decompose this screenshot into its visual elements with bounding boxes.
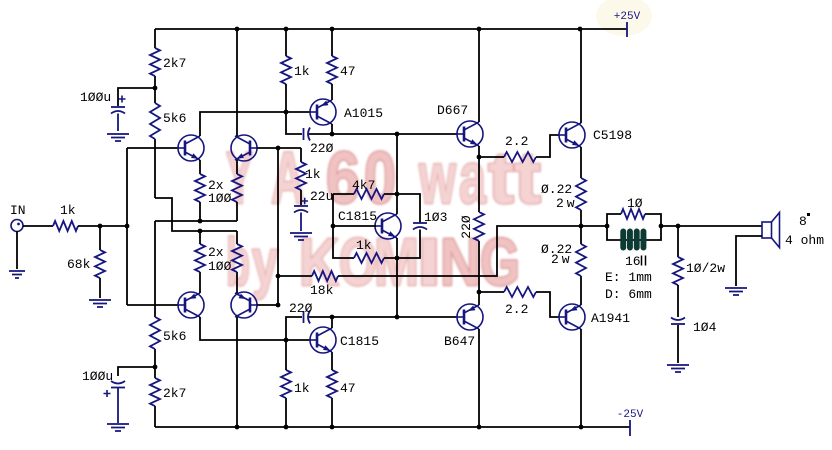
svg-text:1k: 1k [294, 64, 310, 79]
junction box bottom [395, 256, 400, 261]
wire 100u to ground [117, 114, 119, 132]
svg-text:22Ø: 22Ø [289, 301, 313, 316]
wire Q3 collector to lower VAS node [200, 317, 311, 340]
wire left chain top [154, 29, 156, 427]
wire C1815 collector [331, 317, 333, 328]
wire 1k bottom lead [285, 398, 287, 427]
ground below 100u top [107, 134, 129, 141]
svg-text:B647: B647 [444, 334, 475, 349]
resistor R 1k input [53, 221, 78, 231]
wire C1815 bias emitter [396, 238, 398, 258]
wire B647 emitter [478, 292, 480, 305]
wire 1k to C1815 base node [285, 340, 287, 370]
wire Q4 emitter [236, 272, 238, 293]
junction upper-left 100ohm bottom [198, 219, 203, 224]
junction RL left [605, 224, 610, 229]
svg-text:1Ø3: 1Ø3 [424, 210, 447, 225]
junction C1815 base node [284, 338, 289, 343]
wire bias box left+top+bottom+right [333, 134, 420, 317]
svg-text:Ø.22: Ø.22 [541, 182, 572, 197]
junction zobel tap [676, 224, 681, 229]
transistor Q B647 pnp [457, 304, 483, 330]
power terminal -25V tick [629, 420, 631, 436]
resistor R 47 bottom [327, 370, 337, 398]
wire -25V bottom rail [155, 426, 630, 428]
junction 2k7/5k6 with 100u [153, 86, 158, 91]
wire 100LR to common [236, 231, 238, 244]
wire input bases vertical [126, 148, 128, 305]
svg-text:1ØØu: 1ØØu [82, 369, 113, 384]
svg-text:C1815: C1815 [338, 209, 377, 224]
wire D667 emitter [478, 146, 480, 157]
junction 18k at feedback node [276, 274, 281, 279]
svg-text:1Ø4: 1Ø4 [693, 320, 717, 335]
transistor Q1 npn [178, 135, 204, 161]
resistor R 5k6 top [150, 103, 160, 139]
junction Q4 collector rail [235, 425, 240, 430]
wire A1941 emitter [580, 276, 582, 305]
svg-text:4k7: 4k7 [352, 178, 375, 193]
wire 47 to A1015 emitter [331, 84, 333, 100]
resistor R 5k6 bottom [150, 317, 160, 349]
svg-text:G: G [480, 225, 520, 300]
transistor Q A1941 pnp [559, 304, 585, 330]
svg-text:2x: 2x [208, 245, 224, 260]
wire 104 to ground [677, 325, 679, 363]
svg-text:t: t [488, 138, 514, 219]
svg-text:2.2: 2.2 [505, 302, 528, 317]
wire 22u to ground [300, 213, 302, 232]
transistor U A1015 pnp [310, 99, 336, 125]
junction 5k6/2k7 bottom with 100u [153, 365, 158, 370]
resistor R 47 top [327, 56, 337, 84]
junction bias top [395, 132, 400, 137]
svg-text:a: a [459, 138, 487, 219]
wire 47 top lead [331, 29, 333, 56]
wire 1k to input node [78, 225, 127, 227]
svg-text:y: y [252, 225, 278, 300]
wire C1815 bias base [333, 225, 376, 227]
wire Q1 emitter [199, 160, 201, 174]
wire Q2 base [257, 147, 301, 149]
wire upper pair common node [155, 220, 237, 222]
svg-text:22u: 22u [310, 189, 333, 204]
capacitor C 100u top [111, 106, 125, 108]
junction Q2 collector rail [235, 27, 240, 32]
svg-text:2k7: 2k7 [163, 386, 186, 401]
svg-text:1Ø/2w: 1Ø/2w [686, 261, 725, 276]
junction feedback node bottom [276, 303, 281, 308]
resistor R 10 damping [621, 209, 645, 219]
svg-text:5k6: 5k6 [163, 111, 186, 126]
svg-text:47: 47 [340, 64, 356, 79]
junction input node [125, 224, 130, 229]
junction 1k top rail [284, 27, 289, 32]
ground below IN jack [16, 231, 18, 269]
wire 1k to A1015 base node [285, 84, 287, 112]
svg-text:22Ø: 22Ø [310, 141, 334, 156]
resistor R 1k bias [354, 253, 384, 263]
junction 47 top rail [330, 27, 335, 32]
wire speaker return [736, 236, 762, 286]
transistor U C1815 vas npn [310, 327, 336, 353]
svg-text:-25V: -25V [617, 409, 644, 421]
wire Q2 emitter [236, 160, 238, 174]
connector IN jack [11, 220, 23, 232]
transistor Q D667 npn [457, 121, 483, 147]
svg-text:1k: 1k [356, 238, 372, 253]
wire C1815 bias collector [396, 194, 398, 214]
wire output run to speaker [661, 225, 762, 227]
junction C1815 collector node [330, 315, 335, 320]
junction bias bottom [395, 315, 400, 320]
svg-text:68k: 68k [67, 257, 91, 272]
svg-text:1Ø: 1Ø [627, 196, 643, 211]
wire 68k to ground [99, 278, 101, 298]
junction feedback node top [276, 146, 281, 151]
wire VAS top to D667 base [332, 133, 457, 135]
capacitor C 103 [413, 222, 427, 224]
svg-text:D: 6mm: D: 6mm [605, 287, 652, 302]
svg-text:1k: 1k [294, 381, 310, 396]
resistor R 0.22 top [576, 178, 586, 210]
wire 0.22 bottom to output [580, 226, 582, 244]
wire zobel mid [677, 285, 679, 317]
svg-text:4 ohm: 4 ohm [785, 233, 824, 248]
svg-text:C5198: C5198 [593, 128, 632, 143]
wire 68k top lead [99, 226, 101, 250]
wire 1k fb top lead [300, 148, 302, 162]
wire B647 collector to -rail [478, 329, 480, 427]
wire feedback vertical [277, 148, 279, 305]
resistor R 68k [95, 250, 105, 278]
wire 18k left lead [278, 275, 312, 277]
resistor R 1k VAS top [281, 56, 291, 84]
ground below 104 [667, 365, 689, 372]
capacitor C 220 comp bottom [303, 311, 305, 323]
wire A1941 collector to -rail [580, 329, 582, 427]
wire Q4 base [257, 304, 278, 306]
wire 220 driver leads [478, 157, 480, 292]
junction C5198 rail [578, 27, 583, 32]
wire D667 collector to +rail [478, 29, 480, 122]
resistor R 2k7 bottom [150, 378, 160, 406]
junction box top [395, 192, 400, 197]
svg-text:1ØØu: 1ØØu [80, 90, 111, 105]
svg-text:2w: 2w [551, 252, 573, 267]
junction 68k tap [98, 224, 103, 229]
svg-text:t: t [514, 138, 541, 219]
wire A1015 collector [331, 124, 333, 134]
wire VAS bottom to B647 base [332, 316, 457, 318]
svg-text:2w: 2w [556, 196, 578, 211]
resistor R 100 upper-right [232, 174, 242, 202]
resistor R 100 upper-left [195, 174, 205, 202]
junction A1015 base node [284, 110, 289, 115]
wire 100LL to common [199, 231, 201, 244]
junction output node [579, 224, 584, 229]
svg-text:w: w [418, 138, 456, 219]
inductor L1 coil [620, 229, 626, 251]
svg-text:D667: D667 [437, 103, 468, 118]
capacitor C 100u bottom [111, 381, 125, 384]
wire C5198 emitter [580, 147, 582, 178]
svg-text:1k: 1k [305, 167, 321, 182]
junction 1k bottom rail [284, 425, 289, 430]
resistor R 0.22 bottom [576, 244, 586, 276]
resistor R 10/2w zobel [673, 257, 683, 285]
svg-text:C1815: C1815 [340, 334, 379, 349]
wire base Q1 [127, 147, 178, 149]
wire 100u bottom to ground [117, 388, 119, 423]
resistor R 2.2 top [504, 152, 536, 162]
junction 47 bottom rail [330, 425, 335, 430]
junction C1815 base box [331, 224, 336, 229]
junction B647 emitter node [477, 290, 482, 295]
wire 0.22 top to output [580, 210, 582, 226]
wire C5198 collector to +rail [580, 29, 582, 123]
wire 2.2 top run [479, 135, 559, 157]
wire 47 bottom lead [331, 398, 333, 427]
ground below 68k [89, 300, 111, 307]
wire 1k fb to 22u [300, 190, 302, 205]
junction A1015 collector node [330, 132, 335, 137]
wire 18k to output [338, 226, 579, 276]
wire tail jog upper (to lower pair common) [155, 198, 237, 231]
junction B647 rail [477, 425, 482, 430]
wire to 100u bottom [118, 367, 155, 376]
wire 2.2 bottom run [479, 292, 559, 317]
transistor Q4 pnp mirrored [231, 292, 257, 318]
transistor U C1815 bias npn [375, 213, 401, 239]
resistor R 2k7 top [150, 48, 160, 76]
resistor R 1k VAS bottom [281, 370, 291, 398]
wire to 100u top [118, 88, 155, 106]
wire jack to 1k [23, 225, 53, 227]
svg-text:2k7: 2k7 [163, 56, 186, 71]
wire output to RL [581, 225, 607, 227]
resistor R 1k feedback [296, 162, 306, 190]
svg-text:16: 16 [625, 254, 641, 269]
resistor R 100 lower-right [232, 244, 242, 272]
power terminal +25V tick [626, 22, 628, 37]
ground below 100u bottom [107, 424, 129, 431]
wire Q4 collector to -rail [236, 317, 238, 427]
junction RL right [659, 224, 664, 229]
transistor Q2 npn mirrored [231, 135, 257, 161]
svg-text:47: 47 [340, 381, 356, 396]
junction lower-left 100ohm top [198, 229, 203, 234]
wire Q1 collector to VAS node [200, 112, 311, 136]
junction D667 rail [477, 27, 482, 32]
wire 100UR to common [236, 202, 238, 221]
yellow tint near +25V [596, 0, 652, 36]
wire RL top branch [607, 214, 661, 226]
transistor Q3 pnp [178, 292, 204, 318]
capacitor C 220 comp top [303, 128, 305, 140]
transistor Q C5198 npn [559, 122, 585, 148]
ground below speaker [725, 288, 747, 295]
capacitor C 104 zobel [671, 318, 685, 321]
wire zobel top lead [677, 226, 679, 257]
svg-text:+25V: +25V [614, 11, 641, 23]
svg-text:1k: 1k [60, 203, 76, 218]
wire 100UL to common [199, 202, 201, 221]
wire Q3 emitter [199, 272, 201, 293]
svg-text:2.2: 2.2 [505, 134, 528, 149]
svg-text:IN: IN [10, 203, 26, 218]
ground below 22u [290, 233, 312, 240]
junction A1941 rail [579, 425, 584, 430]
resistor R 2.2 bottom [504, 287, 536, 297]
svg-text:1ØØ: 1ØØ [208, 259, 232, 274]
junction D667 emitter node [477, 155, 482, 160]
svg-text:A1015: A1015 [344, 106, 383, 121]
svg-text:1ØØ: 1ØØ [208, 191, 232, 206]
svg-text:A1941: A1941 [591, 311, 630, 326]
wire base Q3 [127, 304, 178, 306]
svg-text:22Ø: 22Ø [459, 215, 474, 239]
wire Q2 collector to +rail [236, 29, 238, 136]
wire 47 to C1815 emitter [331, 352, 333, 370]
wire comp cap 220 top leads [286, 112, 332, 134]
wire 1k top lead [285, 29, 287, 56]
wire RL bottom branch [607, 226, 661, 240]
wire +25V top rail [155, 28, 627, 30]
svg-text:E: 1mm: E: 1mm [605, 270, 652, 285]
svg-text:18k: 18k [310, 283, 334, 298]
resistor R 220 driver [474, 212, 484, 241]
svg-text:8: 8 [799, 214, 807, 229]
svg-text:5k6: 5k6 [163, 329, 186, 344]
resistor R 100 lower-left [195, 244, 205, 272]
resistor R 18k [312, 271, 338, 281]
capacitor C 22u [294, 205, 308, 207]
speaker SPK [762, 222, 772, 238]
wire comp cap 220 bottom leads [286, 317, 332, 340]
resistor R 4k7 [354, 189, 384, 199]
